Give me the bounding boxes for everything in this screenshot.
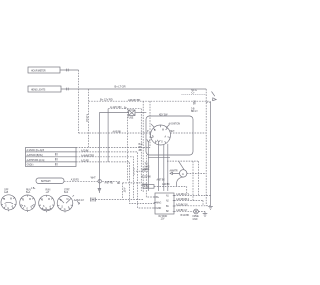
svg-text:A 14 RD-GY 1: A 14 RD-GY 1 — [176, 193, 190, 196]
battery table BT1 — [26, 148, 77, 167]
wire ammeter loop — [177, 177, 184, 186]
wire vertical feed x141 — [140, 109, 142, 191]
ignition switch terminal wires — [147, 139, 150, 191]
wire vertical feed x146 — [146, 155, 155, 197]
battery pill B1 — [36, 178, 64, 184]
wire table row1 up — [76, 147, 150, 149]
svg-text:A-BT BK: A-BT BK — [157, 179, 166, 182]
svg-text:G: G — [161, 142, 163, 144]
svg-text:M: M — [48, 199, 50, 201]
wire A-20 BK — [76, 152, 155, 208]
svg-text:AM-RD BK: AM-RD BK — [128, 98, 141, 102]
svg-text:A-BT-RD: A-BT-RD — [105, 182, 114, 185]
wire over fuse dashed — [108, 108, 141, 110]
svg-text:B+A: B+A — [26, 191, 31, 194]
svg-text:A-BT: A-BT — [123, 188, 126, 194]
wire vertical x108 — [107, 109, 109, 162]
svg-text:A: A — [182, 172, 184, 176]
wire jog at 161 — [167, 160, 198, 162]
wire A-20 RD — [76, 162, 155, 204]
wire fuse to switch housing — [136, 112, 147, 114]
wire 5 LT GR vertical — [88, 89, 90, 148]
key stub 3 — [163, 145, 165, 191]
svg-text:B-GY: B-GY — [142, 185, 148, 187]
wire vertical feed x150 — [149, 101, 151, 147]
safety module U1 — [154, 193, 175, 214]
svg-text:HOUR METER: HOUR METER — [31, 71, 46, 73]
svg-text:1 B+: 1 B+ — [31, 188, 36, 190]
wire A-AMMETER — [76, 157, 134, 200]
wire hour meter lower — [78, 89, 80, 133]
svg-text:A 20 RD: A 20 RD — [81, 159, 89, 162]
key position RUN2 — [39, 190, 55, 213]
wire battery to junction — [64, 180, 99, 182]
wire switch to right bus — [170, 132, 206, 134]
wire vertical solid x100 — [98, 113, 100, 191]
wire from hour meter — [60, 69, 79, 71]
wire vertical feed x127 — [127, 109, 129, 181]
wire A-12V RD to fuse — [99, 112, 129, 114]
svg-text:AMMTR: AMMTR — [170, 170, 178, 173]
wire B+ LT GR — [61, 88, 206, 90]
wire diagonal to ammeter — [179, 161, 185, 170]
svg-text:TO: TO — [145, 164, 148, 166]
svg-text:B-G: B-G — [139, 144, 143, 146]
connector ring X — [194, 209, 199, 214]
svg-text:A+B: A+B — [4, 191, 9, 194]
svg-text:M: M — [162, 130, 164, 132]
wire above module — [154, 187, 187, 193]
wire stub x134 — [133, 168, 135, 176]
wire into ammeter with arrow — [170, 172, 180, 174]
key position START — [57, 190, 74, 213]
wire vertical feed x143 — [142, 101, 144, 193]
module wire B2 — [174, 210, 193, 212]
svg-text:B+ LT GR: B+ LT GR — [115, 85, 126, 89]
ground G2 — [203, 212, 208, 217]
module wire B1 — [174, 205, 211, 207]
svg-text:A 20 BK GN: A 20 BK GN — [176, 203, 188, 206]
ignition switch S1 — [151, 124, 171, 145]
key switch housing — [146, 116, 193, 155]
wire right bus x210 — [210, 101, 212, 206]
svg-text:B+ 12V RD: B+ 12V RD — [100, 98, 113, 102]
link buses — [206, 101, 210, 103]
module wire A1 — [174, 195, 211, 197]
svg-text:G: G — [64, 209, 66, 211]
chassis connector pair — [91, 198, 96, 202]
svg-text:A 20 BK GY: A 20 BK GY — [176, 209, 188, 212]
svg-text:G: G — [26, 209, 28, 211]
svg-text:A-KE-BK: A-KE-BK — [113, 130, 122, 133]
headlights box L1 — [28, 86, 61, 92]
svg-text:GND: GND — [193, 219, 198, 221]
key stub Y2 — [157, 140, 160, 191]
key position RUN — [20, 190, 36, 212]
svg-text:GND: GND — [156, 208, 161, 210]
wire key feed y133 — [79, 132, 151, 134]
label stack right B+ — [191, 101, 198, 113]
svg-text:FUSE: FUSE — [128, 118, 134, 120]
svg-text:RD: RD — [117, 183, 121, 185]
wire ammeter right — [187, 172, 206, 174]
svg-text:A+BT-RD (B) BL]: A+BT-RD (B) BL] — [27, 154, 43, 157]
svg-text:5 LT GR: 5 LT GR — [85, 114, 87, 122]
svg-text:M: M — [29, 199, 31, 201]
svg-text:MAG: MAG — [156, 202, 161, 205]
ground G1 — [208, 206, 213, 209]
svg-text:A-AMMETER: A-AMMETER — [81, 154, 94, 157]
ammeter A1 — [180, 170, 187, 177]
wire connector to module — [96, 199, 144, 201]
reverse switch labels NC C — [182, 90, 207, 94]
label TO MAG — [145, 164, 150, 172]
svg-text:A+BLK GY: A+BLK GY — [74, 199, 85, 202]
fuse F1 — [128, 110, 136, 120]
svg-text:3-B: 3-B — [191, 108, 195, 110]
svg-text:HEAD LIGHTS: HEAD LIGHTS — [31, 89, 46, 92]
svg-text:1-BK: 1-BK — [142, 170, 147, 172]
module wire A2 — [174, 200, 203, 202]
wire vertical x122 — [122, 183, 124, 200]
svg-text:12V: 12V — [161, 219, 165, 221]
svg-text:BATTERY: BATTERY — [41, 180, 51, 183]
wire pill to corner — [123, 182, 141, 184]
svg-text:B GD BK: B GD BK — [181, 215, 190, 217]
svg-text:FRME: FRME — [193, 216, 200, 218]
svg-text:G: G — [7, 208, 9, 210]
label box above module — [143, 185, 154, 189]
svg-text:MAG: MAG — [145, 165, 150, 168]
svg-text:G: G — [45, 208, 47, 210]
svg-text:A 20 BK: A 20 BK — [162, 183, 170, 186]
wire jog at 157.7 — [148, 157, 170, 159]
svg-text:A 20 RD-BK 2: A 20 RD-BK 2 — [176, 198, 190, 201]
svg-text:M: M — [10, 198, 12, 200]
svg-text:B+S: B+S — [64, 192, 69, 194]
wire junction right — [102, 180, 120, 182]
svg-text:A 12VDC (C+-A) B: A 12VDC (C+-A) B — [27, 149, 45, 152]
svg-text:WHT: WHT — [91, 177, 97, 179]
wire B+ 12V RD — [89, 100, 209, 102]
svg-text:GND(-): GND(-) — [27, 165, 34, 167]
wire riser x196 — [198, 161, 200, 195]
svg-text:A+BTRY-BK (A) G]: A+BTRY-BK (A) G] — [27, 159, 45, 162]
key stub 4 — [167, 144, 169, 191]
connector P2 on vertical — [98, 180, 101, 183]
arrow mark under label — [77, 201, 79, 204]
wire drop x203 — [202, 201, 204, 206]
label module name — [159, 216, 168, 221]
connector tick 2 — [67, 88, 69, 91]
svg-text:B-12V BK: B-12V BK — [142, 177, 152, 179]
svg-text:BR GY: BR GY — [191, 111, 198, 113]
arrow to engine — [212, 92, 215, 97]
wire stub y171 — [136, 170, 148, 172]
wire right bus x206 — [205, 89, 207, 206]
connector tick 1 — [67, 69, 69, 72]
hour meter box M1 — [28, 67, 60, 73]
connector arrow end — [98, 189, 101, 194]
wire riser x193 — [192, 161, 194, 200]
svg-text:A 20 BK: A 20 BK — [81, 149, 89, 152]
svg-text:A-IGNITION: A-IGNITION — [169, 122, 181, 125]
svg-text:A 20 RD: A 20 RD — [71, 178, 79, 181]
svg-text:KEY SW: KEY SW — [159, 115, 168, 117]
label frame ground — [193, 216, 200, 221]
key position OFF — [1, 190, 17, 212]
label B-GND BK — [139, 144, 143, 152]
wire to ground 2 — [198, 211, 205, 213]
